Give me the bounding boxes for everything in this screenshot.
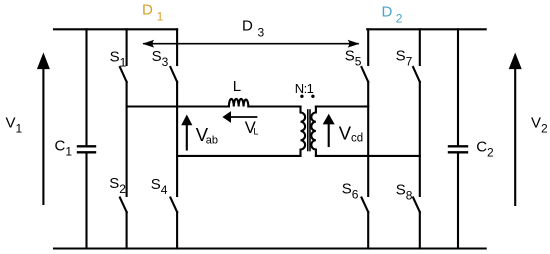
Vcd arrow head bbox=[323, 114, 335, 125]
svg-text:V2: V2 bbox=[531, 114, 548, 135]
svg-text:Vab: Vab bbox=[196, 124, 218, 146]
wire leg S5-S6 mid bbox=[367, 82, 369, 196]
capacitor C1 bbox=[78, 29, 95, 248]
inductor L bbox=[229, 99, 249, 107]
V1 arrow head bbox=[37, 53, 50, 70]
wire node c line bbox=[316, 105, 368, 107]
V2 arrow head bbox=[509, 53, 522, 70]
V1 arrow shaft bbox=[42, 67, 44, 204]
D3 arrow head left bbox=[142, 40, 154, 48]
D3 arrow shaft bbox=[144, 43, 358, 45]
svg-text:C2: C2 bbox=[476, 139, 494, 160]
transformer dot primary bbox=[300, 95, 303, 98]
transformer core bbox=[308, 110, 310, 151]
svg-text:S2: S2 bbox=[109, 175, 126, 196]
svg-text:D1: D1 bbox=[142, 1, 164, 23]
switch S8 bbox=[413, 198, 420, 213]
svg-text:S8: S8 bbox=[396, 181, 413, 202]
transformer secondary winding bbox=[311, 107, 316, 156]
svg-text:S5: S5 bbox=[345, 47, 362, 68]
svg-text:D3: D3 bbox=[242, 18, 265, 40]
svg-text:N:1: N:1 bbox=[295, 81, 314, 96]
V2 arrow shaft bbox=[514, 67, 516, 205]
wire node a to inductor bbox=[127, 105, 229, 107]
wire leg S6 bottom bbox=[367, 212, 369, 249]
wire node b line bbox=[177, 155, 300, 157]
Vcd arrow shaft bbox=[328, 123, 330, 146]
switch S6 bbox=[362, 198, 369, 213]
Vab arrow shaft bbox=[186, 124, 188, 150]
svg-text:D2: D2 bbox=[382, 4, 403, 26]
svg-text:S6: S6 bbox=[342, 180, 359, 201]
svg-text:S3: S3 bbox=[152, 48, 169, 69]
transformer primary winding bbox=[301, 107, 306, 156]
wire leg S3-S4 mid bbox=[176, 82, 178, 196]
switch S4 bbox=[170, 198, 177, 213]
switch S1 bbox=[120, 29, 127, 82]
D3 arrow head right bbox=[348, 40, 360, 48]
wire bottom rail bbox=[54, 247, 486, 249]
svg-text:Vcd: Vcd bbox=[339, 123, 363, 145]
wire top rail left bridge bbox=[54, 28, 177, 30]
transformer dot secondary bbox=[311, 95, 314, 98]
capacitor C2 bbox=[449, 29, 467, 248]
wire leg S8 bottom bbox=[419, 212, 421, 249]
switch S2 bbox=[120, 198, 127, 213]
Vab arrow head bbox=[181, 115, 192, 126]
switch S3 bbox=[170, 29, 177, 82]
svg-text:L: L bbox=[233, 78, 241, 95]
wire leg S2 bottom bbox=[126, 212, 128, 249]
wire leg S7-S8 mid bbox=[419, 82, 421, 196]
wire leg S4 bottom bbox=[176, 212, 178, 249]
wire leg S1-S2 mid bbox=[126, 82, 128, 196]
svg-text:VL: VL bbox=[245, 119, 259, 137]
wire top rail right bridge bbox=[367, 28, 486, 30]
switch S7 bbox=[413, 29, 420, 82]
svg-text:C1: C1 bbox=[55, 137, 73, 158]
switch S5 bbox=[362, 29, 369, 82]
wire inductor to transformer primary bbox=[248, 105, 300, 107]
VL arrow shaft bbox=[230, 116, 257, 118]
svg-text:S7: S7 bbox=[396, 47, 413, 68]
wire node d line bbox=[316, 155, 420, 157]
VL arrow head bbox=[222, 111, 231, 123]
svg-text:S1: S1 bbox=[110, 48, 127, 69]
svg-text:V1: V1 bbox=[6, 114, 23, 135]
svg-text:S4: S4 bbox=[151, 176, 168, 197]
